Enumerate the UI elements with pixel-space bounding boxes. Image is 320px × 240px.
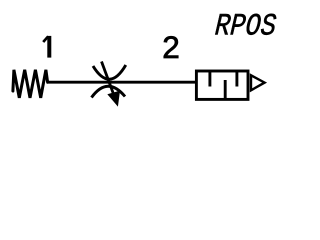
silencer body U1 (196, 71, 248, 99)
silencer baffle line a (208, 71, 211, 87)
svg-text:2: 2 (162, 29, 180, 65)
spring S1 (13, 70, 48, 98)
silencer baffle line c (235, 71, 238, 87)
adjustment arrow shaft (102, 62, 114, 95)
adjustment arrow head (108, 91, 119, 105)
port label 1 (43, 36, 49, 58)
component label RPOS (214, 10, 278, 45)
throttle valve top arc (93, 65, 126, 79)
outlet triangle (251, 75, 265, 90)
silencer baffle line b (224, 80, 227, 99)
throttle valve bottom arc (92, 86, 126, 97)
wire main line (47, 81, 197, 84)
svg-text:RPOS: RPOS (214, 10, 278, 45)
